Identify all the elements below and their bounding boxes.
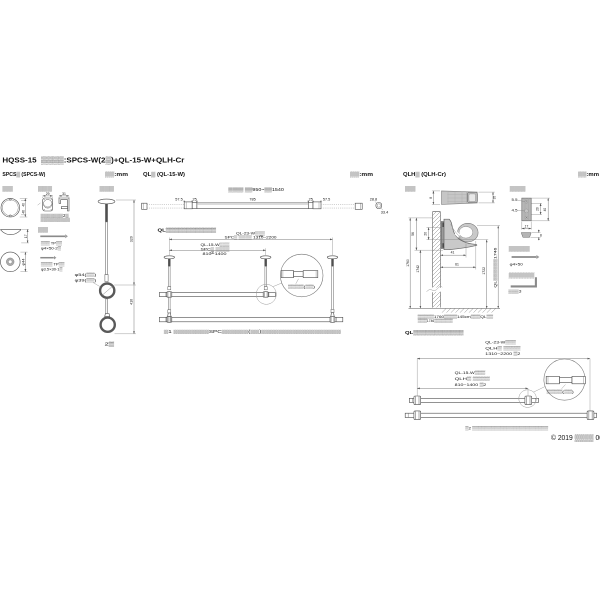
QLH inset right tube (572, 376, 585, 383)
QL pole dimension labels (175, 198, 330, 203)
usage dim line QL-23 (169, 230, 332, 255)
svg-text:φ4×50: φ4×50 (510, 262, 524, 267)
svg-text:QLH▒ ▒▒▒▒: QLH▒ ▒▒▒▒ (455, 376, 490, 381)
svg-text:40: 40 (22, 203, 26, 207)
QL cross-section symbol (376, 203, 382, 209)
svg-text:▒▒:mm: ▒▒:mm (105, 171, 129, 178)
QLH mounting plate on wall (441, 222, 446, 249)
body bottom view circle (1, 252, 21, 272)
usage dim line QL-15 (169, 242, 265, 256)
svg-text:▒▒:mm: ▒▒:mm (350, 171, 374, 178)
QLH top view right dimension 35 (479, 192, 497, 203)
svg-text:© 2019 ▒▒▒▒ 00: © 2019 ▒▒▒▒ 00 (551, 434, 600, 442)
svg-text:φ3.5×30·1▒: φ3.5×30·1▒ (41, 267, 63, 272)
QLH hook curl slot (455, 231, 461, 238)
svg-text:▒▒▒▒1746▒▒▒▒▒▒▒▒: ▒▒▒▒1746▒▒▒▒▒▒▒▒ (418, 318, 453, 323)
svg-text:▒▒▒▒(▒▒): ▒▒▒▒(▒▒) (288, 284, 316, 289)
QLH leader to inset (534, 386, 546, 392)
svg-text:▒▒▒▒▒: ▒▒▒▒▒ (509, 272, 535, 279)
svg-text:810~1400 ▒2: 810~1400 ▒2 (455, 382, 488, 387)
svg-text:▒▒: ▒▒ (2, 186, 13, 193)
QL pole left end cap (142, 203, 147, 209)
QLH detail circle (519, 390, 537, 408)
svg-text:320: 320 (130, 236, 134, 242)
usage center SPC pole (260, 256, 271, 290)
QLH inset inner pole (560, 378, 573, 383)
usage center ring on bar1 (263, 292, 268, 298)
svg-text:46: 46 (22, 210, 26, 214)
QLH usage bar 1 (409, 398, 538, 402)
screw 2 hook TP (40, 256, 56, 260)
usage bar 2 (lower QL pole) (159, 317, 342, 322)
pole ring 1 (100, 284, 114, 298)
svg-text:QL▒▒▒▒▒▒1746: QL▒▒▒▒▒▒1746 (493, 248, 497, 288)
body side view dome (1, 229, 21, 234)
svg-text:1742: 1742 (416, 265, 420, 273)
svg-text:56: 56 (411, 232, 415, 236)
pole threaded section (105, 204, 108, 222)
QL pole left telescoping section (dotted) (147, 205, 184, 208)
svg-text:φ44: φ44 (22, 258, 26, 265)
QLH usage bar 2 (405, 413, 596, 417)
svg-text:57.5: 57.5 (175, 198, 182, 202)
QLH dim 1760 (406, 218, 432, 309)
svg-text:33.4: 33.4 (381, 211, 388, 215)
body bottom view dimension phi44 (20, 252, 27, 272)
svg-text:410: 410 (130, 299, 134, 305)
plate dim 20 (532, 203, 543, 214)
svg-text:40: 40 (543, 208, 547, 212)
usage left ring on bar1 (167, 292, 172, 298)
QLH usage dim line QL-23 (417, 359, 590, 411)
inset label leader (296, 279, 299, 284)
body top view circle (1, 198, 20, 217)
usage bar 1 (upper QL pole) (159, 292, 275, 296)
QLH clamp on bar2 left (414, 411, 421, 420)
body top view dimension 40/46 (20, 198, 28, 217)
svg-text:QL-23-W▒▒▒: QL-23-W▒▒▒ (485, 339, 516, 344)
QL cross-section labels 28.8 / 33.4 (370, 198, 388, 215)
QL pole right telescoping section (dotted) (321, 205, 355, 208)
svg-text:▒2 ▒▒▒▒▒▒▒▒▒▒▒▒▒▒▒▒▒▒▒▒▒▒▒▒: ▒2 ▒▒▒▒▒▒▒▒▒▒▒▒▒▒▒▒▒▒▒▒▒▒▒▒ (465, 425, 548, 430)
svg-text:▒▒: ▒▒ (38, 226, 49, 233)
svg-text:1722: 1722 (482, 267, 486, 275)
QL pole left collar 57.5 (184, 202, 192, 209)
svg-text:810~1400: 810~1400 (203, 251, 228, 256)
QLH dim 56 (411, 218, 417, 250)
plate leader 4.5 (512, 208, 525, 212)
QL pole left collar 25 (192, 202, 197, 208)
QLH top view left dimension (429, 191, 440, 205)
QL pole right collar 57.5 (313, 202, 321, 209)
pole ring 2 (101, 318, 115, 332)
svg-text:17: 17 (24, 234, 28, 238)
pole flare (105, 314, 110, 317)
svg-text:QL-15-W▒▒▒: QL-15-W▒▒▒ (455, 370, 486, 375)
pole dimension 320/410 (114, 200, 136, 334)
QLH clamp on bar1 right (525, 396, 532, 405)
hook left leader 9 (38, 203, 41, 205)
usage left SPC pole (164, 256, 175, 317)
QLH hook trough line (451, 224, 462, 238)
usage right ring on bar2 (330, 317, 335, 323)
QL pole right end cap (355, 203, 362, 209)
QLH dim 20 (hole pitch) (424, 228, 489, 240)
svg-text:25: 25 (309, 198, 313, 202)
svg-text:8: 8 (540, 233, 542, 237)
svg-text:HQSS-15 ▒▒▒▒:SPCS-W(2▒)+QL-15: HQSS-15 ▒▒▒▒:SPCS-W(2▒)+QL-15-W+QLH-Cr (2, 156, 184, 165)
screw 1 body TP (40, 234, 68, 238)
QLH dim 61 (441, 241, 476, 270)
hook front dimension 29 (43, 192, 53, 198)
svg-text:SPCS▒ (SPCS-W): SPCS▒ (SPCS-W) (2, 171, 45, 178)
svg-text:20: 20 (536, 207, 540, 211)
QLH dim 41 (441, 244, 467, 258)
body side view dimension 17 (21, 229, 29, 243)
QLH usage dim QL-23 text (485, 339, 521, 356)
svg-text:▒▒: ▒▒ (405, 186, 416, 193)
hex wrench drawing (511, 277, 536, 286)
usage right SPC pole (327, 256, 338, 317)
svg-text:20: 20 (424, 232, 428, 236)
QLH clamp on bar2 right (587, 411, 594, 420)
svg-text:QL▒▒▒▒▒▒▒▒▒▒▒▒: QL▒▒▒▒▒▒▒▒▒▒▒▒ (158, 228, 217, 234)
QLH hook body side view (valley arm) (444, 219, 477, 250)
QLH dim QL upper limit 1746 (477, 226, 500, 309)
QLH dim 1742 (415, 250, 444, 308)
plate leader 5.5 (512, 198, 526, 202)
pole diameter leader (93, 283, 101, 288)
inset joint right tube (303, 271, 318, 278)
hook side dimension 31 (59, 192, 69, 198)
mounting plate front view (522, 198, 531, 221)
svg-text:17: 17 (525, 225, 529, 229)
usage detail circle (256, 284, 276, 304)
QLH usage dim line QL-15 (417, 387, 528, 389)
pole upper rod (106, 222, 108, 275)
svg-text:8: 8 (429, 197, 433, 199)
QLH hook curl hole (459, 227, 473, 239)
svg-text:785: 785 (249, 198, 255, 202)
pole ceiling cap (98, 199, 115, 204)
svg-text:+30: +30 (259, 235, 264, 238)
QL pole main tube 785 (197, 203, 308, 209)
plate dim 17 (522, 222, 531, 230)
QLH inset label leader (562, 385, 566, 389)
svg-text:41: 41 (451, 250, 455, 254)
usage left ring on bar2 (167, 317, 172, 323)
svg-text:φ4×50·2▒: φ4×50·2▒ (41, 246, 61, 251)
hook front view (43, 198, 53, 211)
svg-text:SPC▒ ▒▒▒▒ 1310~2200: SPC▒ ▒▒▒▒ 1310~2200 (225, 235, 278, 240)
QLH dim 1722 (482, 240, 487, 309)
svg-text:QL▒▒▒▒▒▒▒▒▒▒▒▒: QL▒▒▒▒▒▒▒▒▒▒▒▒ (405, 330, 464, 336)
QLH inset circle (544, 359, 585, 400)
svg-text:31: 31 (62, 192, 66, 196)
svg-text:▒▒▒▒: ▒▒▒▒ (509, 245, 531, 252)
svg-text:QL▒ (QL-15-W): QL▒ (QL-15-W) (143, 171, 185, 178)
QLH floor line with hatch (409, 308, 501, 312)
svg-text:▒▒▒: ▒▒▒ (100, 185, 115, 192)
svg-text:57.5: 57.5 (323, 198, 330, 202)
QLH hook top view (442, 191, 478, 205)
QLH usage dim QL-15 text (455, 370, 490, 387)
svg-text:QLH▒ (QLH-Cr): QLH▒ (QLH-Cr) (403, 171, 446, 178)
inset joint inner pole (294, 272, 304, 277)
svg-text:4.5: 4.5 (512, 208, 518, 212)
svg-text:φ39(▒▒): φ39(▒▒) (75, 277, 97, 282)
svg-text:1760: 1760 (406, 259, 410, 267)
leader to inset (273, 282, 285, 287)
svg-text:25: 25 (192, 198, 196, 202)
svg-text:28.8: 28.8 (370, 198, 377, 202)
QLH inset left tube (546, 376, 559, 383)
plate dim 40 (532, 198, 550, 221)
svg-text:▒▒▒3: ▒▒▒3 (508, 288, 521, 293)
svg-text:▒▒:mm: ▒▒:mm (578, 171, 600, 178)
QLH clamp on bar1 left (414, 396, 421, 405)
hook side view (59, 198, 69, 211)
svg-text:▒▒▒▒(▒▒): ▒▒▒▒(▒▒) (547, 389, 575, 394)
mounting screw drawing (512, 255, 540, 259)
svg-text:35: 35 (493, 196, 497, 200)
svg-text:2▒: 2▒ (105, 342, 115, 348)
svg-text:5.5: 5.5 (512, 198, 518, 202)
svg-text:▒▒▒▒▒▒▒▒▒: ▒▒▒▒▒▒▒▒▒ (41, 217, 70, 222)
pole joint (105, 275, 108, 282)
svg-text:61: 61 (455, 262, 459, 266)
svg-text:1310~2200 ▒2: 1310~2200 ▒2 (485, 351, 521, 356)
svg-text:▒▒▒ TP▒▒: ▒▒▒ TP▒▒ (41, 240, 62, 245)
mounting plate side view (521, 230, 542, 241)
svg-text:▒▒▒: ▒▒▒ (510, 185, 526, 192)
inset circle (joint detail) (280, 254, 323, 297)
inset joint left tube (281, 271, 293, 278)
QLH wall section (427, 202, 443, 316)
QLH hook curl outer (458, 223, 479, 242)
svg-text:29: 29 (46, 192, 50, 196)
QL pole right collar 25 (308, 202, 313, 208)
svg-text:▒1 ▒▒▒▒▒▒▒▒SPC▒▒▒▒▒▒(▒▒)▒▒▒▒▒▒: ▒1 ▒▒▒▒▒▒▒▒SPC▒▒▒▒▒▒(▒▒)▒▒▒▒▒▒▒▒▒▒▒▒▒▒▒▒… (164, 329, 341, 334)
svg-text:+30: +30 (210, 251, 215, 254)
pole lower rod (106, 299, 108, 314)
svg-text:QLH▒ ▒▒▒▒: QLH▒ ▒▒▒▒ (485, 345, 520, 350)
